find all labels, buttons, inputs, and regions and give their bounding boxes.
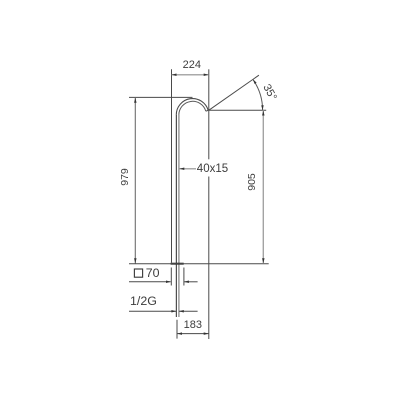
dim 905 top extension line (horizontal from tube end) [209, 109, 266, 111]
tube end cut face [206, 109, 208, 112]
dim 224 / 183 extension line right (lower part) [208, 177, 210, 340]
dim 1/2G arrow right [179, 310, 184, 313]
svg-text:1/2G: 1/2G [130, 294, 157, 308]
dim 905 arrow down [262, 258, 265, 263]
dim 979 arrow down [134, 258, 137, 263]
dim 183 arrow left [177, 332, 182, 335]
dim 224 extension line left [171, 69, 173, 262]
svg-text:224: 224 [183, 59, 201, 71]
dim 183 arrow right [204, 332, 209, 335]
leader 40x15 line [179, 168, 196, 170]
dim 70 arrow left [166, 281, 171, 284]
flange plate (square 70, edge view) [171, 263, 184, 265]
bottom extension line at plate level [129, 263, 269, 265]
dim 35 degree arc [253, 79, 263, 110]
dim 35 arrow top [253, 79, 257, 84]
dim 70 extension line right [183, 268, 185, 286]
svg-text:183: 183 [184, 319, 202, 331]
dim 35 arrow bottom [261, 105, 264, 110]
label square 70 symbol [134, 269, 142, 277]
dim 35 degree diagonal line [209, 75, 259, 110]
dim 1/2G arrow left [171, 310, 176, 313]
dim 905 dimension line [262, 110, 264, 263]
tube bend outer arc [176, 99, 208, 115]
dim 224 dimension line [172, 74, 209, 76]
dim 224 arrow right [204, 74, 209, 77]
svg-text:40x15: 40x15 [197, 163, 228, 175]
dim 70 arrow right [184, 281, 189, 284]
tube bend inner arc [179, 101, 206, 115]
dim 70 line right [184, 281, 197, 283]
leader 40x15 arrow [179, 168, 184, 171]
dim 1/2G line left [129, 310, 176, 312]
tube left wall [175, 115, 177, 317]
dim 979 arrow up [134, 98, 137, 103]
dim 224 / 183 extension line right (upper part) [208, 69, 210, 159]
dim 183 dimension line [177, 333, 209, 335]
dim 70 line left [129, 281, 171, 283]
dim 905 arrow up [262, 111, 265, 116]
dim 70 extension line left [170, 268, 172, 286]
dim 183 extension line left [176, 320, 178, 339]
svg-text:979: 979 [119, 168, 131, 186]
dim 979 top extension line [129, 96, 193, 98]
svg-text:70: 70 [146, 266, 160, 280]
svg-text:905: 905 [246, 173, 258, 191]
dim 979 dimension line [134, 97, 136, 263]
tube right wall [178, 115, 180, 317]
dim 224 arrow left [172, 74, 177, 77]
dim 1/2G line right [179, 310, 198, 312]
